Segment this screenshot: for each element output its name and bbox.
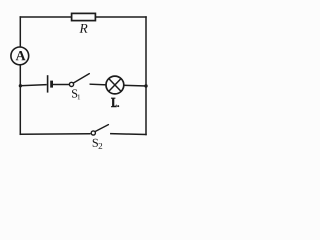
node junction left <box>19 84 22 87</box>
wire bottom-right segment <box>111 133 146 136</box>
resistor R <box>72 13 96 20</box>
wire middle branch left <box>20 85 46 86</box>
battery cell long plate <box>47 75 49 92</box>
wire lamp to right side <box>124 84 146 87</box>
wire top-right segment <box>95 16 146 18</box>
label S1 S <box>72 89 77 97</box>
wire S1 to lamp <box>90 83 106 86</box>
label S2 subscript 2 <box>99 143 103 149</box>
lamp L <box>106 76 124 94</box>
lamp X diagonal 1 <box>109 79 121 92</box>
switch S2 lever <box>95 125 108 132</box>
label S2 S <box>93 139 98 147</box>
switch S1 pivot <box>69 82 73 86</box>
wire top-left segment <box>20 16 71 18</box>
label L period <box>117 105 119 107</box>
node junction right <box>144 84 147 87</box>
label A <box>16 51 26 60</box>
wire left side upper <box>19 17 21 46</box>
wire battery to S1 <box>53 84 69 86</box>
wire right side <box>145 17 147 135</box>
switch S1 lever <box>73 74 89 83</box>
battery cell short thick plate <box>50 81 53 88</box>
label L <box>111 98 117 108</box>
lamp X diagonal 2 <box>109 79 121 92</box>
ammeter A1 <box>11 47 29 65</box>
label S1 subscript 1 <box>78 94 81 99</box>
label R <box>79 24 87 33</box>
switch S2 pivot <box>91 131 95 135</box>
wire bottom-left segment <box>20 133 90 136</box>
wire left side lower <box>19 65 21 134</box>
